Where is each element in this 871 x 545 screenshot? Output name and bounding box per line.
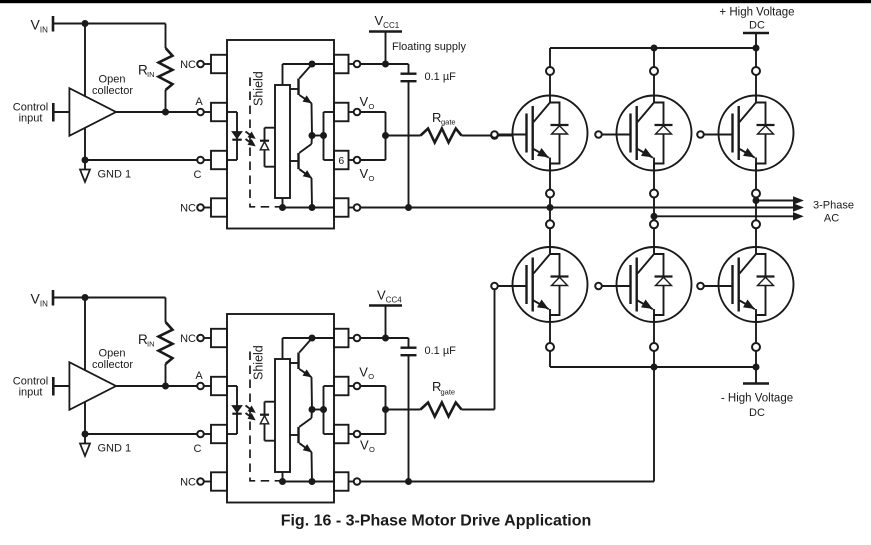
wire phase column C bbox=[755, 164, 757, 255]
pin 4 NC (U2 lower) bbox=[197, 472, 227, 490]
light arrows (U1 upper) bbox=[246, 132, 255, 146]
label Floating supply bbox=[392, 41, 466, 53]
node gate (upper) bbox=[491, 132, 498, 139]
wire pin8 to cap (lower) bbox=[360, 337, 408, 339]
light arrows (U2 lower) bbox=[246, 406, 255, 420]
amplifier block (U1 upper) bbox=[275, 85, 290, 198]
svg-text:O: O bbox=[368, 372, 374, 381]
junction internal ground (U2 lower) bbox=[279, 478, 286, 485]
pin 5 (U1 upper) bbox=[334, 198, 360, 217]
terminal collector B-low bbox=[650, 220, 658, 228]
svg-text:0.1 µF: 0.1 µF bbox=[425, 71, 457, 83]
junction internal VCC (U2 lower) bbox=[309, 335, 316, 342]
resistor Rgate (lower) bbox=[386, 379, 495, 417]
junction GND (upper) bbox=[82, 157, 89, 164]
svg-text:collector: collector bbox=[92, 359, 133, 371]
wire buffer ground drop (upper) bbox=[84, 24, 86, 161]
LED bracket (U1 upper) bbox=[227, 112, 237, 160]
svg-text:O: O bbox=[369, 102, 375, 111]
wire emitter C-low bbox=[755, 315, 757, 367]
terminal collector A-high bbox=[546, 67, 554, 75]
svg-text:V: V bbox=[359, 365, 368, 380]
svg-text:NC: NC bbox=[180, 203, 196, 215]
svg-text:O: O bbox=[369, 174, 375, 183]
transistor Q1 (U2 lower) bbox=[290, 339, 312, 410]
svg-text:IN: IN bbox=[147, 70, 155, 79]
svg-text:Open: Open bbox=[99, 74, 126, 86]
junction IGBT column/phase B bbox=[651, 213, 658, 220]
wire phase A / floating return bbox=[360, 204, 802, 211]
Vo bracket (U1 upper) bbox=[324, 112, 335, 160]
label VO pin6 (lower) bbox=[360, 438, 375, 455]
resistor RIN (upper) bbox=[138, 24, 173, 113]
wire buffer output to pin A (upper) bbox=[116, 111, 197, 113]
pin 1 NC (U2 lower) bbox=[197, 329, 227, 347]
svg-text:3-Phase: 3-Phase bbox=[813, 200, 854, 212]
wire output node (U1 upper) bbox=[312, 135, 324, 137]
junction RIN/output (lower) bbox=[162, 383, 169, 390]
terminal collector B-high bbox=[650, 67, 658, 75]
optocoupler U2 lower body bbox=[227, 314, 334, 503]
wire pin6 (lower) bbox=[360, 433, 385, 435]
wire phase column B bbox=[653, 164, 655, 255]
terminal collector C-high bbox=[752, 67, 760, 75]
wire buffer output to pin A (lower) bbox=[116, 385, 197, 387]
svg-text:input: input bbox=[19, 387, 43, 399]
page header bar bbox=[0, 0, 871, 3]
wire gate to IGBT A-low bbox=[498, 285, 514, 287]
wire buffer ground drop (lower) bbox=[84, 298, 86, 435]
label NC pin4 (U1 upper) bbox=[180, 203, 196, 215]
junction internal ground (U1 upper) bbox=[279, 204, 286, 211]
svg-text:AC: AC bbox=[824, 213, 839, 225]
svg-text:GND 1: GND 1 bbox=[98, 443, 132, 455]
svg-text:R: R bbox=[432, 110, 441, 125]
junction Vo bracket (U1 upper) bbox=[320, 132, 327, 139]
junction output node (U2 lower) bbox=[309, 406, 316, 413]
junction internal VCC (U1 upper) bbox=[309, 61, 316, 68]
label 3-Phase AC bbox=[813, 200, 854, 225]
svg-text:gate: gate bbox=[441, 118, 456, 127]
svg-text:O: O bbox=[369, 445, 375, 454]
wire collector C-high bbox=[755, 48, 757, 103]
svg-text:C: C bbox=[194, 169, 202, 181]
capacitor C4 0.1uF bbox=[401, 338, 457, 482]
node Control input (lower) bbox=[13, 376, 70, 399]
internal ground rail (U1 upper) bbox=[283, 198, 335, 208]
svg-text:A: A bbox=[195, 370, 203, 382]
node VIN (upper) bbox=[31, 16, 54, 35]
LED (U1 upper) bbox=[232, 132, 241, 140]
wire phase B line bbox=[654, 213, 803, 220]
junction RIN/output (upper) bbox=[162, 109, 169, 116]
photodiode (U1 upper) bbox=[260, 128, 275, 167]
svg-text:0.1 µF: 0.1 µF bbox=[425, 345, 457, 357]
svg-text:gate: gate bbox=[441, 388, 456, 397]
label NC pin1 (U1 upper) bbox=[180, 59, 196, 71]
IGBT Q-B-low bbox=[595, 247, 691, 322]
wire pin7 (upper) bbox=[360, 112, 385, 160]
svg-text:C: C bbox=[194, 443, 202, 455]
svg-text:V: V bbox=[360, 94, 369, 109]
ground GND1 (lower) bbox=[80, 434, 131, 456]
junction cap/phase A bbox=[405, 204, 412, 211]
shield (U2 lower) bbox=[250, 345, 283, 481]
resistor Rgate (upper) bbox=[386, 110, 492, 143]
wire phase C line bbox=[756, 197, 803, 204]
svg-text:collector: collector bbox=[92, 85, 133, 97]
junction cap/lower ground rail bbox=[405, 478, 412, 485]
svg-text:DC: DC bbox=[749, 20, 765, 32]
terminal emitter B-low bbox=[650, 343, 658, 351]
svg-text:Shield: Shield bbox=[252, 345, 266, 380]
pin 5 (U2 lower) bbox=[334, 472, 360, 491]
terminal emitter A-high bbox=[546, 190, 554, 198]
IGBT Q-C-high bbox=[697, 96, 793, 171]
svg-text:NC: NC bbox=[180, 59, 196, 71]
photodiode (U2 lower) bbox=[260, 402, 275, 441]
junction VCC1/pin8 bbox=[382, 61, 389, 68]
junction emitter rail Q2 (U2 lower) bbox=[309, 478, 316, 485]
node VCC1 bbox=[369, 13, 402, 64]
open collector buffer (lower) bbox=[69, 348, 133, 410]
LED (U2 lower) bbox=[232, 406, 241, 414]
wire pin6 (upper) bbox=[360, 159, 385, 161]
label C pin3 (U1 upper) bbox=[194, 169, 202, 181]
wire VIN rail (lower) bbox=[53, 297, 166, 299]
IGBT Q-A-low bbox=[491, 247, 587, 322]
amplifier block (U2 lower) bbox=[275, 359, 290, 472]
junction rail/B-low bbox=[651, 364, 658, 371]
wire gate to IGBT A-high bbox=[498, 135, 514, 137]
pin 6 (U1 upper) bbox=[334, 151, 360, 170]
-HV DC rail bbox=[550, 366, 756, 368]
junction Vo join (lower) bbox=[382, 406, 389, 413]
wire output node (U2 lower) bbox=[312, 409, 324, 411]
node Control input (upper) bbox=[13, 102, 70, 125]
junction Vo bracket (U2 lower) bbox=[320, 406, 327, 413]
label NC pin4 (U2 lower) bbox=[180, 477, 196, 489]
terminal emitter C-low bbox=[752, 343, 760, 351]
wire GND to pin C (lower) bbox=[85, 433, 197, 435]
svg-text:NC: NC bbox=[180, 333, 196, 345]
wire emitter A-low bbox=[549, 315, 551, 367]
node VCC4 bbox=[369, 288, 402, 339]
svg-text:+ High Voltage: + High Voltage bbox=[719, 7, 794, 19]
svg-text:NC: NC bbox=[180, 477, 196, 489]
wire VIN rail (upper) bbox=[53, 23, 166, 25]
node VIN (lower) bbox=[31, 290, 54, 309]
svg-text:A: A bbox=[195, 96, 203, 108]
caption bbox=[281, 513, 592, 530]
label VO pin7 (upper) bbox=[360, 94, 375, 111]
svg-text:Fig. 16 - 3-Phase Motor Drive: Fig. 16 - 3-Phase Motor Drive Applicatio… bbox=[281, 513, 592, 530]
label A pin2 (U1 upper) bbox=[195, 96, 203, 108]
resistor RIN (lower) bbox=[138, 298, 173, 387]
junction IGBT column/phase A bbox=[547, 204, 554, 211]
pin 4 NC (U1 upper) bbox=[197, 198, 227, 216]
optocoupler U1 upper body bbox=[227, 40, 334, 229]
internal VCC rail (U1 upper) bbox=[283, 64, 335, 85]
terminal emitter A-low bbox=[546, 343, 554, 351]
junction GND (lower) bbox=[82, 431, 89, 438]
svg-text:V: V bbox=[360, 438, 369, 453]
terminal collector A-low bbox=[546, 220, 554, 228]
wire pin7 (lower) bbox=[360, 386, 385, 434]
IGBT Q-B-high bbox=[595, 96, 691, 171]
label NC pin1 (U2 lower) bbox=[180, 333, 196, 345]
junction emitter rail Q2 (U1 upper) bbox=[309, 204, 316, 211]
wire -HV to lower driver ground bbox=[360, 367, 654, 482]
junction VCC4/pin8 bbox=[382, 335, 389, 342]
terminal collector C-low bbox=[752, 220, 760, 228]
junction output node (U1 upper) bbox=[309, 132, 316, 139]
wire collector A-high bbox=[549, 48, 551, 103]
pin 1 NC (U1 upper) bbox=[197, 55, 227, 73]
LED bracket (U2 lower) bbox=[227, 386, 237, 434]
pin 6 (U2 lower) bbox=[334, 425, 360, 444]
svg-text:6: 6 bbox=[338, 155, 344, 167]
junction IGBT column/phase C bbox=[753, 197, 760, 204]
label VO pin7 (lower) bbox=[359, 365, 374, 382]
internal ground rail (U2 lower) bbox=[283, 472, 335, 482]
svg-text:DC: DC bbox=[749, 407, 765, 419]
label A pin2 (U2 lower) bbox=[195, 370, 203, 382]
svg-text:GND 1: GND 1 bbox=[98, 169, 132, 181]
open collector buffer (upper) bbox=[69, 74, 133, 136]
pin 8 (U2 lower) bbox=[334, 329, 360, 348]
IGBT Q-C-low bbox=[697, 247, 793, 322]
Vo bracket (U2 lower) bbox=[324, 386, 335, 434]
junction Vo join (upper) bbox=[382, 132, 389, 139]
transistor Q2 (U1 upper) bbox=[290, 136, 312, 208]
node +High Voltage DC bbox=[719, 7, 794, 49]
transistor Q1 (U1 upper) bbox=[290, 65, 312, 136]
wire gate riser (lower) bbox=[494, 289, 496, 409]
junction rail/-HV terminal bbox=[753, 364, 760, 371]
label VO pin6 (upper) bbox=[360, 166, 375, 183]
pin 2 A (U2 lower) bbox=[197, 377, 227, 395]
wire emitter B-low bbox=[653, 315, 655, 367]
terminal emitter B-high bbox=[650, 190, 658, 198]
svg-text:- High Voltage: - High Voltage bbox=[721, 393, 793, 405]
internal VCC rail (U2 lower) bbox=[283, 338, 335, 359]
terminal emitter C-high bbox=[752, 190, 760, 198]
ground GND1 (upper) bbox=[80, 160, 131, 182]
+HV DC rail bbox=[550, 47, 756, 49]
svg-text:V: V bbox=[360, 166, 369, 181]
label C pin3 (U2 lower) bbox=[194, 443, 202, 455]
svg-text:input: input bbox=[19, 113, 43, 125]
wire phase column A bbox=[549, 164, 551, 255]
junction VIN/buffer (lower) bbox=[82, 294, 89, 301]
capacitor C1 0.1uF bbox=[401, 64, 457, 208]
svg-text:IN: IN bbox=[147, 340, 155, 349]
pin 7 (U2 lower) bbox=[334, 377, 360, 396]
pin 8 (U1 upper) bbox=[334, 55, 360, 74]
junction VIN/buffer (upper) bbox=[82, 20, 89, 27]
svg-text:Shield: Shield bbox=[252, 71, 266, 106]
IGBT Q-A-high bbox=[491, 96, 587, 171]
junction rail/+HV terminal bbox=[753, 45, 760, 52]
wire pin8 to cap (upper) bbox=[360, 63, 408, 65]
transistor Q2 (U2 lower) bbox=[290, 410, 312, 482]
junction rail/IGBT B-high bbox=[651, 45, 658, 52]
node -High Voltage DC bbox=[721, 367, 793, 419]
svg-text:Floating supply: Floating supply bbox=[392, 41, 466, 53]
wire GND to pin C (upper) bbox=[85, 159, 197, 161]
pin 3 C (U2 lower) bbox=[197, 425, 227, 443]
pin 2 A (U1 upper) bbox=[197, 103, 227, 121]
pin 3 C (U1 upper) bbox=[197, 151, 227, 169]
shield (U1 upper) bbox=[250, 71, 283, 207]
svg-text:Open: Open bbox=[99, 348, 126, 360]
wire collector B-high bbox=[653, 48, 655, 103]
pin 7 (U1 upper) bbox=[334, 103, 360, 122]
